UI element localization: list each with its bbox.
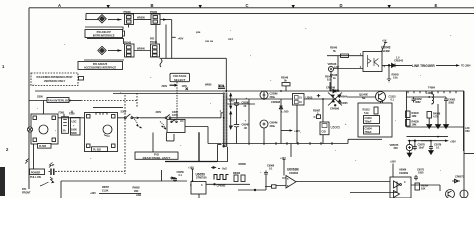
scan speckle (37, 28, 451, 173)
svg-text:+45V: +45V (178, 37, 184, 41)
T300 winding dimension 17V (229, 112, 234, 130)
inductor L4084 (432, 92, 434, 105)
wire bottom right (411, 185, 440, 191)
filter T4084 (428, 86, 436, 90)
svg-text:ACCESSORIES INTERFACE: ACCESSORIES INTERFACE (84, 65, 117, 69)
label box REAR PANEL (135, 152, 178, 160)
grid letter B (151, 3, 154, 8)
svg-text:FAN INTERLOCK: FAN INTERLOCK (48, 99, 72, 103)
svg-text:W5040: W5040 (137, 46, 145, 50)
svg-text:W5030: W5030 (137, 15, 145, 19)
primary routing wires (185, 127, 222, 144)
label FAN INTERLOCK (47, 98, 72, 103)
svg-text:TO J204: TO J204 (461, 64, 471, 68)
svg-text:30V: 30V (394, 146, 399, 150)
opto-coupler U5043 (360, 46, 391, 72)
thermistor assembly (69, 111, 80, 136)
ground bus (222, 139, 382, 143)
diode CR5043 (382, 56, 412, 68)
wire into A30 interface (85, 25, 129, 30)
lamp DS5046 (328, 62, 364, 72)
ground below R5042 (387, 77, 391, 82)
svg-text:FL503: FL503 (39, 144, 47, 148)
zener VR5075 (390, 141, 413, 153)
node +10V U6059 (188, 166, 194, 170)
svg-text:P5030: P5030 (124, 10, 132, 14)
net +30V (408, 140, 445, 142)
right edge connector column (464, 91, 474, 198)
connector P5042 (124, 40, 134, 57)
svg-text:VERSION ONLY: VERSION ONLY (44, 79, 66, 83)
svg-text:U305: U305 (306, 96, 313, 100)
wire loop below T300 (218, 145, 228, 162)
dashed link power switch (58, 170, 125, 172)
svg-text:230u: 230u (270, 95, 276, 99)
transistor Q1540 (347, 92, 386, 104)
fuse F300 (59, 111, 69, 134)
wire mains run (58, 117, 221, 119)
svg-text:0.15u: 0.15u (172, 113, 179, 117)
pulse train (214, 175, 229, 180)
grid letter A (58, 3, 61, 8)
label box VOLTAGE SELECT (170, 73, 190, 82)
svg-text:P/O: P/O (22, 187, 26, 191)
svg-text:20K: 20K (134, 189, 139, 193)
border frame left (28, 8, 30, 189)
svg-text:R6068: R6068 (239, 162, 247, 166)
svg-text:INTFR INTERFACE: INTFR INTERFACE (93, 33, 115, 37)
connector P5032 (150, 10, 160, 25)
op-amp U6063B (238, 168, 311, 191)
resistor R5040 (327, 46, 363, 58)
svg-text:P5042: P5042 (124, 40, 132, 44)
svg-text:CR3098: CR3098 (271, 100, 281, 104)
resistor R6094 (415, 183, 429, 191)
svg-text:STM7555: STM7555 (196, 176, 207, 180)
wire to U6069 (311, 182, 397, 193)
svg-text:8.2k: 8.2k (327, 78, 332, 82)
svg-text:+5V: +5V (382, 38, 387, 42)
wire rail row2 left (84, 59, 124, 61)
cable W5040 label (134, 50, 151, 52)
capacitor C604B (242, 119, 250, 130)
svg-text:CR4096: CR4096 (330, 107, 340, 111)
svg-text:PL 502: PL 502 (93, 148, 101, 152)
wire opto to bridge (331, 56, 338, 91)
diode CR5046 (326, 86, 340, 93)
node +10V op-amp (280, 156, 286, 160)
node 230V / 115V select (162, 84, 188, 88)
border frame top (29, 7, 474, 9)
resistor R4040 (406, 111, 411, 118)
resistor R5036 (281, 109, 321, 119)
svg-text:10K: 10K (421, 187, 426, 191)
capacitor C6056 (170, 170, 184, 182)
capacitor C1610 (364, 116, 380, 124)
svg-text:-2uS: -2uS (222, 167, 228, 171)
capacitor C6071 (414, 168, 425, 181)
switch S300 fan interlock (37, 95, 43, 99)
label FL503 (38, 144, 52, 149)
svg-text:S300: S300 (121, 109, 127, 113)
capacitor C6066 (264, 164, 275, 177)
svg-text:CR4065: CR4065 (339, 101, 349, 105)
transistor Q6075 (446, 190, 455, 199)
svg-text:C: C (246, 3, 249, 8)
transformer T300 (223, 93, 227, 147)
svg-text:17V: 17V (229, 124, 234, 128)
svg-text:CD4069: CD4069 (399, 171, 409, 175)
node +20V (390, 160, 396, 164)
svg-text:5.1k: 5.1k (364, 111, 369, 115)
connector P5030 (124, 10, 134, 25)
svg-text:C1604: C1604 (365, 127, 373, 131)
safety diamond symbol top (98, 15, 106, 23)
svg-text:W600: W600 (205, 83, 212, 87)
svg-text:PULL ON: PULL ON (30, 175, 41, 179)
svg-text:5.1k: 5.1k (393, 76, 398, 80)
T300 bottom junction (223, 146, 225, 148)
board A16 outline (61, 180, 187, 182)
diode CR4005 (330, 107, 340, 111)
svg-text:ow sa: ow sa (205, 39, 213, 43)
node +45V (178, 37, 184, 41)
svg-text:.0082: .0082 (415, 100, 422, 104)
T300 pin 1 tap (221, 113, 223, 118)
svg-text:.0082: .0082 (448, 101, 455, 105)
capacitor C1515 (389, 95, 397, 102)
relay wire (93, 106, 123, 108)
wire rail row2 right to P600 (160, 58, 227, 92)
voltage select switch S301 (156, 110, 186, 133)
line selector box PL502 (85, 113, 118, 152)
svg-text:+20V: +20V (390, 160, 396, 164)
svg-text:+30V: +30V (90, 191, 96, 195)
svg-text:R6057: R6057 (102, 185, 110, 189)
net LINE TRIGGER (412, 64, 435, 68)
svg-text:C1610: C1610 (365, 116, 373, 120)
svg-text:2A: 2A (63, 129, 66, 133)
grid number 2 (6, 147, 9, 152)
T4084 network box (406, 91, 465, 151)
node +5V (382, 38, 387, 42)
safety diamond symbol row2 (98, 46, 106, 54)
svg-text:+, /100: +, /100 (281, 110, 289, 114)
svg-text:R6062: R6062 (233, 171, 241, 175)
diode CR3098 (271, 100, 283, 109)
grid tick (199, 5, 202, 8)
wire into P5042 (108, 50, 122, 52)
bridge rectifier CR5064/CR5065 (328, 89, 348, 107)
capacitor C5079 (421, 141, 442, 155)
capacitor C5078 (413, 140, 425, 150)
svg-text:P/O A30 A57: P/O A30 A57 (97, 30, 112, 34)
grounds (427, 118, 432, 129)
svg-text:+: + (245, 119, 247, 123)
svg-text:750uF: 750uF (365, 130, 373, 134)
grid letter E (435, 3, 438, 8)
wire into P5030 (85, 19, 98, 21)
resistor R5046 (281, 76, 290, 92)
svg-text:U5005: U5005 (331, 126, 341, 130)
regulator U305 inline (293, 94, 321, 144)
svg-text:CR4064: CR4064 (338, 95, 348, 99)
switch POWER (25, 159, 57, 187)
svg-text:21.5K: 21.5K (102, 188, 109, 192)
svg-text:T4084: T4084 (428, 86, 436, 90)
resistor R4036 (406, 120, 411, 127)
grid tick (107, 5, 110, 8)
svg-text:B: B (151, 3, 154, 8)
svg-text:POWER: POWER (31, 170, 41, 174)
grid number 1 (2, 64, 5, 69)
grid letter C (246, 3, 249, 8)
svg-text:1000: 1000 (418, 171, 424, 175)
svg-text:N146B: N146B (382, 49, 390, 53)
svg-text:CR6073: CR6073 (455, 175, 465, 179)
note P/O A16 (22, 187, 31, 194)
svg-text:D: D (340, 3, 343, 8)
svg-text:LINE TRIGGER: LINE TRIGGER (412, 64, 435, 68)
electrolytic C1500 (260, 91, 277, 99)
capacitor C1604 (364, 126, 380, 134)
wire row2 upper (87, 39, 124, 44)
dashed boundary rear panel (124, 95, 126, 174)
net +10V tap (281, 130, 291, 132)
svg-text:P5040: P5040 (150, 40, 158, 44)
resistor R5044 (325, 75, 333, 82)
label PL502 (92, 147, 108, 152)
electrolytic C1504 (260, 120, 277, 128)
resistor R1515 (363, 107, 379, 115)
svg-text:+30V: +30V (450, 139, 456, 143)
ghost print artifact (196, 30, 233, 43)
wire from P5032 (160, 19, 172, 21)
enclosure top line (35, 90, 464, 92)
svg-text:10uF: 10uF (419, 146, 425, 150)
scan edge mark (0, 167, 5, 196)
regulator block box (358, 103, 392, 137)
interface box A30 A57 (85, 30, 125, 38)
resistor R6057 (102, 185, 110, 192)
waveform out symbol (211, 167, 216, 169)
svg-text:L4084: L4084 (426, 91, 434, 95)
wire: long top net (86, 12, 474, 14)
AC line fan box B300 (27, 101, 58, 170)
dashed box RACKMOUNT VERSION ONLY (31, 73, 78, 86)
svg-text:230V: 230V (156, 110, 162, 114)
wire: chassis line 2 (113, 93, 225, 95)
wire verticals to ground bus (249, 91, 281, 144)
inverter U6069 (390, 168, 411, 199)
cable W5030 (137, 15, 145, 19)
grid tick (388, 5, 391, 8)
svg-text:U3C: U3C (72, 120, 77, 124)
svg-text:+: + (246, 96, 248, 100)
T300 winding dimension 130V (229, 94, 235, 109)
IC U5005 (320, 99, 347, 144)
svg-text:A1B: A1B (136, 193, 141, 197)
svg-text:SELECT: SELECT (174, 78, 186, 82)
svg-text:P/O A30/A76: P/O A30/A76 (93, 62, 108, 66)
svg-text:750uF: 750uF (365, 120, 373, 124)
svg-text:ml t: ml t (228, 37, 233, 41)
wire loop W5040 (156, 25, 166, 68)
svg-text:pte: pte (196, 30, 201, 34)
svg-text:F300: F300 (69, 112, 75, 116)
resistor R5048 (330, 73, 338, 80)
svg-text:230u: 230u (270, 124, 276, 128)
svg-text:U6063B: U6063B (287, 168, 299, 172)
wire to rear panel box (152, 133, 154, 153)
capacitor CP6063 (214, 183, 226, 187)
svg-text:C/D: C/D (322, 130, 326, 134)
switch S300 mains (121, 109, 142, 128)
resistor R6061 (133, 186, 141, 193)
junction dots (192, 90, 439, 182)
svg-text:100K: 100K (71, 128, 77, 132)
resistor R5042 (388, 65, 399, 80)
svg-text:4.75: 4.75 (433, 115, 438, 119)
diode CR6073 (452, 175, 465, 183)
grid letter D (340, 3, 343, 8)
svg-text:500K: 500K (71, 131, 77, 135)
svg-text:E: E (435, 3, 438, 8)
svg-text:U6069: U6069 (399, 168, 407, 172)
interface box A30/A76 (78, 62, 123, 70)
svg-text:A: A (58, 3, 61, 8)
svg-text:230V: 230V (162, 84, 168, 88)
svg-text:REAR PANEL ASS'Y: REAR PANEL ASS'Y (143, 156, 171, 160)
svg-text:115V: 115V (182, 84, 188, 88)
transistor Q6077 (460, 190, 468, 198)
resistor R4038 (427, 112, 432, 119)
grid tick (292, 5, 295, 8)
capacitor C3062 (412, 97, 416, 103)
connector P608 (205, 83, 225, 89)
connector P5040 (150, 37, 160, 57)
wire bundle thick (165, 132, 218, 161)
svg-text:10M: 10M (412, 123, 417, 127)
svg-text:U6C: U6C (465, 129, 470, 133)
capacitor C4062 (444, 97, 448, 103)
svg-text:10M: 10M (412, 114, 417, 118)
capacitor C650B (234, 99, 250, 144)
svg-text:NE: NE (362, 96, 366, 100)
svg-text:CD4063: CD4063 (289, 171, 299, 175)
ground below VR5075 (407, 153, 412, 157)
svg-text:S300: S300 (37, 95, 43, 99)
wire secondary top to bridge (227, 98, 336, 100)
resistor R6062 (233, 171, 245, 182)
svg-text:P5032: P5032 (150, 10, 158, 14)
timer U6059 (190, 173, 207, 199)
svg-text:FRONT: FRONT (22, 190, 31, 194)
